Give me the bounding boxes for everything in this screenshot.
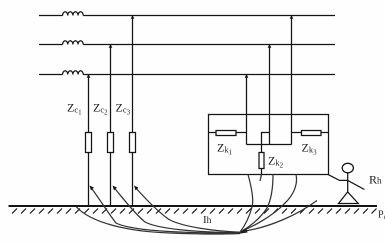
earth current big arc [76, 207, 240, 234]
person head [342, 163, 353, 173]
resistor Zk3 [302, 131, 322, 136]
svg-text:Zc3: Zc3 [116, 101, 131, 117]
svg-text:Zk1: Zk1 [217, 141, 233, 157]
fault current curve from box B1 [240, 175, 253, 233]
phase line L2 [39, 41, 335, 45]
resistor Zc3 [130, 133, 136, 153]
svg-text:Zk2: Zk2 [268, 154, 284, 170]
node dot on L1 at box tap [290, 15, 294, 19]
svg-text:Zk3: Zk3 [302, 141, 318, 157]
resistor Zc1 [86, 133, 92, 153]
svg-text:Zc1: Zc1 [67, 101, 82, 117]
resistor Zc2 [108, 133, 114, 153]
wire Zc1 vertical [88, 75, 90, 206]
wire phase drop to box (from L1) [291, 16, 293, 145]
node dot on L2 at box tap [268, 44, 272, 48]
svg-text:Zc2: Zc2 [93, 101, 108, 117]
person right arm [348, 180, 365, 189]
current arrow to Zc2 [114, 187, 241, 233]
fault current curve from box B2 [241, 175, 274, 232]
wire Zk1 left [209, 132, 216, 134]
wire Zk2 jog from L2 drop [262, 133, 270, 153]
inductor coil L1 [63, 12, 84, 16]
svg-text:Rh: Rh [369, 173, 382, 187]
wire Zk3 right [321, 132, 329, 134]
node dot on L3 at Zc1 tap [87, 74, 91, 78]
person legs [339, 192, 359, 204]
inductor coil L3 [63, 71, 84, 75]
ground surface line [9, 205, 378, 207]
node dot on L2 at Zc2 tap [109, 44, 113, 48]
person body [347, 173, 349, 192]
equipment enclosure box [209, 115, 329, 175]
inductor coil L2 [63, 41, 84, 45]
node dot on L1 at Zc3 tap [131, 15, 135, 19]
svg-text:Ih: Ih [203, 214, 212, 226]
wire Zk1 right [236, 132, 247, 134]
node dot on L3 at box tap [245, 74, 249, 78]
wire Zc3 vertical [132, 16, 134, 206]
current arrow to Zc1 [91, 187, 241, 233]
earth current rise toward person [242, 201, 317, 232]
phase line L3 [39, 71, 335, 75]
current arrow to Zc3 [135, 187, 241, 232]
resistor Zk2 [259, 153, 264, 169]
ground hatching [12, 209, 377, 214]
convergence arrowhead [238, 229, 248, 235]
wire phase drop to box (from L3) [246, 75, 248, 145]
wire Zk2 bottom [261, 169, 263, 175]
stub below Zk2 [260, 175, 262, 182]
fault current curve from box B3 [241, 175, 297, 232]
resistor Zk1 [216, 131, 236, 136]
wire Zk3 left [292, 132, 302, 134]
svg-text:Pd: Pd [378, 210, 385, 222]
wire Zc2 vertical [110, 45, 112, 206]
internal bus bar [247, 144, 292, 146]
phase line L1 [39, 12, 335, 16]
person left arm touching box [328, 175, 348, 181]
wire phase drop to box (from L2) [269, 45, 271, 145]
